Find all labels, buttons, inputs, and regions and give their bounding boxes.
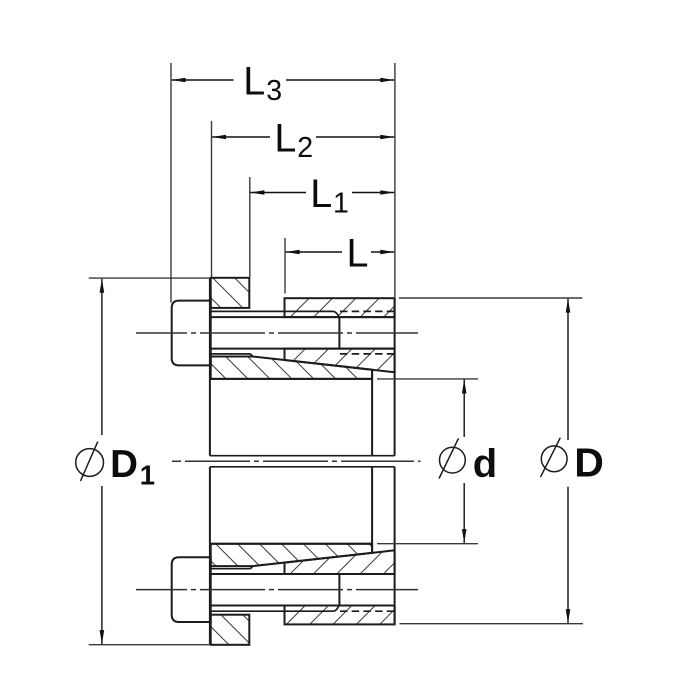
- flange lower section (hatched): [211, 615, 250, 645]
- screw thread major line upper (solid then runout): [211, 311, 339, 317]
- outer ring upper taper section (hatched): [285, 349, 395, 373]
- screw thread major line lower solid: [211, 354, 253, 357]
- screw tip face: [338, 317, 340, 349]
- flange upper section (hatched): [211, 278, 250, 308]
- svg-text:D: D: [110, 443, 138, 486]
- dimension L3 line: [172, 79, 395, 81]
- svg-text:3: 3: [266, 75, 282, 107]
- bore break band upper line: [210, 455, 395, 457]
- dimension D extension bottom: [400, 623, 584, 625]
- dimension d extension top: [377, 378, 478, 380]
- common right extension line: [394, 63, 396, 297]
- dimension D1 extension top: [89, 277, 209, 279]
- screw shank top line: [211, 316, 395, 318]
- label L1: [310, 172, 349, 220]
- upper screw axis line: [136, 332, 418, 334]
- label diameter D1: [76, 442, 155, 491]
- screw hole bottom line: [211, 348, 395, 350]
- main center line: [172, 460, 421, 462]
- svg-text:1: 1: [140, 459, 155, 490]
- dimension L1 line: [250, 192, 394, 194]
- dimension L extension left: [284, 238, 286, 294]
- bore bottom edge: [210, 543, 372, 545]
- outer ring upper bar section (hatched): [285, 298, 395, 317]
- label L2: [274, 117, 313, 164]
- dimension D1 line: [101, 279, 103, 644]
- svg-text:L: L: [347, 232, 369, 276]
- svg-text:L: L: [243, 60, 265, 104]
- lower screw hole top line: [211, 573, 395, 575]
- label diameter D: [541, 438, 604, 486]
- lower screw shank line: [211, 605, 395, 607]
- lower screw axis line: [136, 589, 418, 591]
- label L3: [243, 60, 282, 107]
- dimension L2 extension left: [211, 121, 213, 277]
- dimension d extension bottom: [377, 543, 478, 545]
- dimension D extension top: [399, 297, 582, 299]
- lower hidden thread line (dashed): [340, 610, 395, 612]
- hidden thread line upper (dashed): [340, 310, 395, 312]
- svg-text:1: 1: [333, 188, 349, 220]
- inner sleeve upper section (hatched): [211, 357, 372, 379]
- dimension D1 extension bottom: [89, 644, 209, 646]
- flange left face / bore left edge: [209, 278, 211, 645]
- dimension D line: [567, 299, 569, 623]
- svg-text:D: D: [574, 439, 604, 485]
- inner sleeve lower section (hatched): [211, 544, 372, 566]
- bore top edge: [210, 378, 372, 380]
- label L: [347, 232, 369, 276]
- dimension d line: [463, 380, 465, 544]
- label diameter d: [439, 438, 497, 486]
- svg-text:2: 2: [297, 132, 313, 164]
- screw head: [172, 301, 211, 366]
- dimension L2 line: [212, 136, 394, 138]
- body right face: [394, 298, 396, 624]
- outer ring lower taper section (hatched): [285, 550, 395, 574]
- svg-text:L: L: [310, 172, 332, 216]
- dimension L3 extension left: [170, 63, 172, 303]
- lower screw: thread major line (solid then runout): [211, 606, 339, 612]
- hidden thread line lower (dashed): [340, 353, 395, 355]
- dimension L line: [286, 251, 395, 253]
- dimension L1 extension left: [249, 177, 251, 277]
- lower screw tip face: [338, 574, 340, 606]
- bore break band lower line: [210, 466, 395, 468]
- svg-text:d: d: [473, 442, 497, 486]
- lower screw thread major solid: [211, 566, 253, 569]
- sleeve right end face: [371, 370, 373, 553]
- screw head lower: [172, 557, 211, 622]
- outer ring lower bar section (hatched): [285, 606, 395, 625]
- svg-text:L: L: [274, 117, 296, 161]
